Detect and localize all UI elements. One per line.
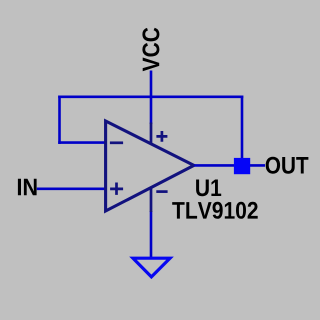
wire output (op-amp apex to OUT label) [194, 164, 265, 167]
pin V- stub [150, 188, 153, 213]
wire VCC supply [150, 71, 153, 125]
wire feedback left vertical down [58, 96, 61, 144]
designator U1 [196, 180, 221, 197]
net label OUT [266, 157, 309, 174]
wire feedback vertical from output node up [241, 96, 244, 168]
inverting input minus mark [110, 141, 123, 144]
ground [133, 258, 170, 277]
V- supply minus mark [156, 190, 167, 193]
non-inverting input plus mark [110, 183, 123, 195]
wire feedback top horizontal [58, 96, 243, 99]
pin V+ stub [150, 123, 153, 145]
wire V- supply to ground [150, 211, 153, 258]
wire IN to non-inverting input [37, 188, 106, 191]
net label IN [18, 179, 37, 196]
op-amp U1 triangle body [106, 121, 194, 211]
node output junction (filled square) [234, 158, 250, 174]
V+ supply plus mark [156, 131, 167, 142]
net label VCC [142, 28, 159, 72]
wire feedback into inverting input [58, 141, 105, 144]
value TLV9102 [172, 202, 258, 219]
